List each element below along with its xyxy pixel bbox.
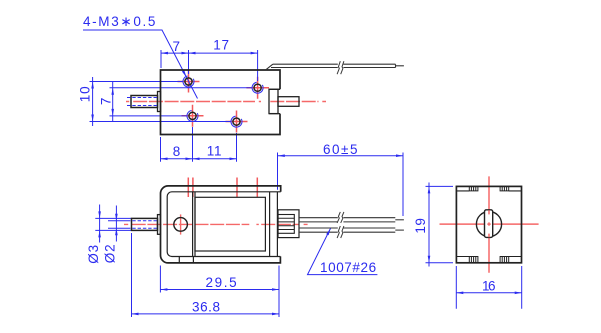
side view red hole projection ticks <box>188 178 257 198</box>
end view top-left tab <box>469 186 478 191</box>
top view wire tip <box>396 65 404 67</box>
hole TL red crosshair <box>178 71 200 93</box>
svg-text:10: 10 <box>78 86 93 103</box>
dim 60±5 extension lines <box>278 153 404 217</box>
hole TL <box>183 76 194 87</box>
bottom dim extension lines <box>161 127 237 162</box>
dim7v line <box>112 82 114 121</box>
dim 16 extension lines <box>456 266 521 309</box>
dim 29.5 line <box>160 289 279 291</box>
svg-text:8: 8 <box>173 144 181 159</box>
top view right flange <box>269 89 278 113</box>
end view corner inner lines <box>456 191 521 257</box>
upper wire <box>299 218 395 222</box>
top view red centerline <box>126 101 326 103</box>
hole BR <box>231 116 242 127</box>
leader 4-M3*0.5 <box>83 30 198 99</box>
hole BR red crosshair <box>226 111 248 133</box>
top view wire strip <box>266 64 396 70</box>
side view end plate <box>276 192 278 257</box>
side view bottom tab notch <box>179 257 193 263</box>
terminal comb inner <box>278 215 294 234</box>
end view red crosshair <box>440 176 539 272</box>
end view bottom-left tab <box>469 257 478 263</box>
top view wire break symbol <box>337 61 344 74</box>
side view coil <box>195 197 265 251</box>
lower wire break <box>337 226 344 238</box>
hole BL red crosshair <box>182 105 204 127</box>
hole BL <box>187 110 198 121</box>
end view top-right tab <box>500 186 509 191</box>
top view left shaft flange <box>158 92 161 112</box>
svg-text:11: 11 <box>207 143 223 158</box>
end view plunger flat red line <box>487 210 490 237</box>
svg-text:36.8: 36.8 <box>192 300 221 315</box>
upper wire tip <box>395 219 404 221</box>
svg-text:17: 17 <box>213 38 230 53</box>
side view bobbin right flange <box>269 192 271 257</box>
side view shaft <box>132 218 158 230</box>
side view circle red vertical <box>180 214 182 234</box>
top view right pin <box>278 97 299 107</box>
top view shaft hidden lines <box>127 98 158 106</box>
end view plunger flats <box>485 210 493 238</box>
lower wire <box>299 228 395 232</box>
top view body outline <box>161 70 281 135</box>
dim10 extension lines <box>90 82 232 122</box>
dia2 dim line <box>115 206 117 242</box>
upper wire break <box>337 212 344 223</box>
top dim extension lines <box>161 50 258 81</box>
svg-text:1007#26: 1007#26 <box>320 260 377 275</box>
dim 19 extension lines <box>426 186 454 262</box>
top view right notch lines <box>269 89 280 113</box>
svg-text:19: 19 <box>413 218 428 234</box>
svg-text:29.5: 29.5 <box>206 275 238 290</box>
dia3 dim line <box>99 205 101 243</box>
top dim line <box>161 52 258 54</box>
side view shaft hidden lines <box>127 221 158 229</box>
end view body <box>456 186 521 262</box>
svg-text:4-M3∗0.5: 4-M3∗0.5 <box>83 14 156 29</box>
hole TR red crosshair <box>246 77 269 99</box>
side view bracket outer <box>160 186 280 263</box>
side view bobbin left flange <box>193 192 195 257</box>
side view red centerline <box>124 223 308 225</box>
end view plunger circle <box>476 212 501 237</box>
dim7v extension lines <box>110 88 252 116</box>
dim 19 line <box>428 183 430 267</box>
svg-text:Ø3: Ø3 <box>86 244 101 264</box>
leader 1007#26 <box>308 228 378 274</box>
lower wire tip <box>395 229 404 231</box>
svg-text:16: 16 <box>482 279 496 294</box>
dim 29.5 extension lines <box>160 266 279 318</box>
svg-text:60±5: 60±5 <box>323 142 358 157</box>
svg-text:7: 7 <box>98 98 113 106</box>
side view shaft flange <box>158 215 161 235</box>
top view left shaft <box>131 96 158 108</box>
dim 36.8 line <box>132 313 280 315</box>
dim 60±5 line <box>278 155 403 157</box>
end view bottom-right tab <box>500 257 509 263</box>
dim 16 line <box>456 292 521 294</box>
dim 36.8 extension line <box>131 233 133 317</box>
side view plunger circle <box>174 218 188 232</box>
bottom dim line <box>161 158 237 160</box>
hole TR <box>252 82 263 93</box>
dim10 line <box>92 77 94 126</box>
side view bracket inner line <box>167 192 281 257</box>
svg-text:Ø2: Ø2 <box>103 244 118 264</box>
terminal comb outer <box>278 210 299 238</box>
terminal comb ridges <box>278 218 294 229</box>
diameter ext lines <box>95 218 131 230</box>
